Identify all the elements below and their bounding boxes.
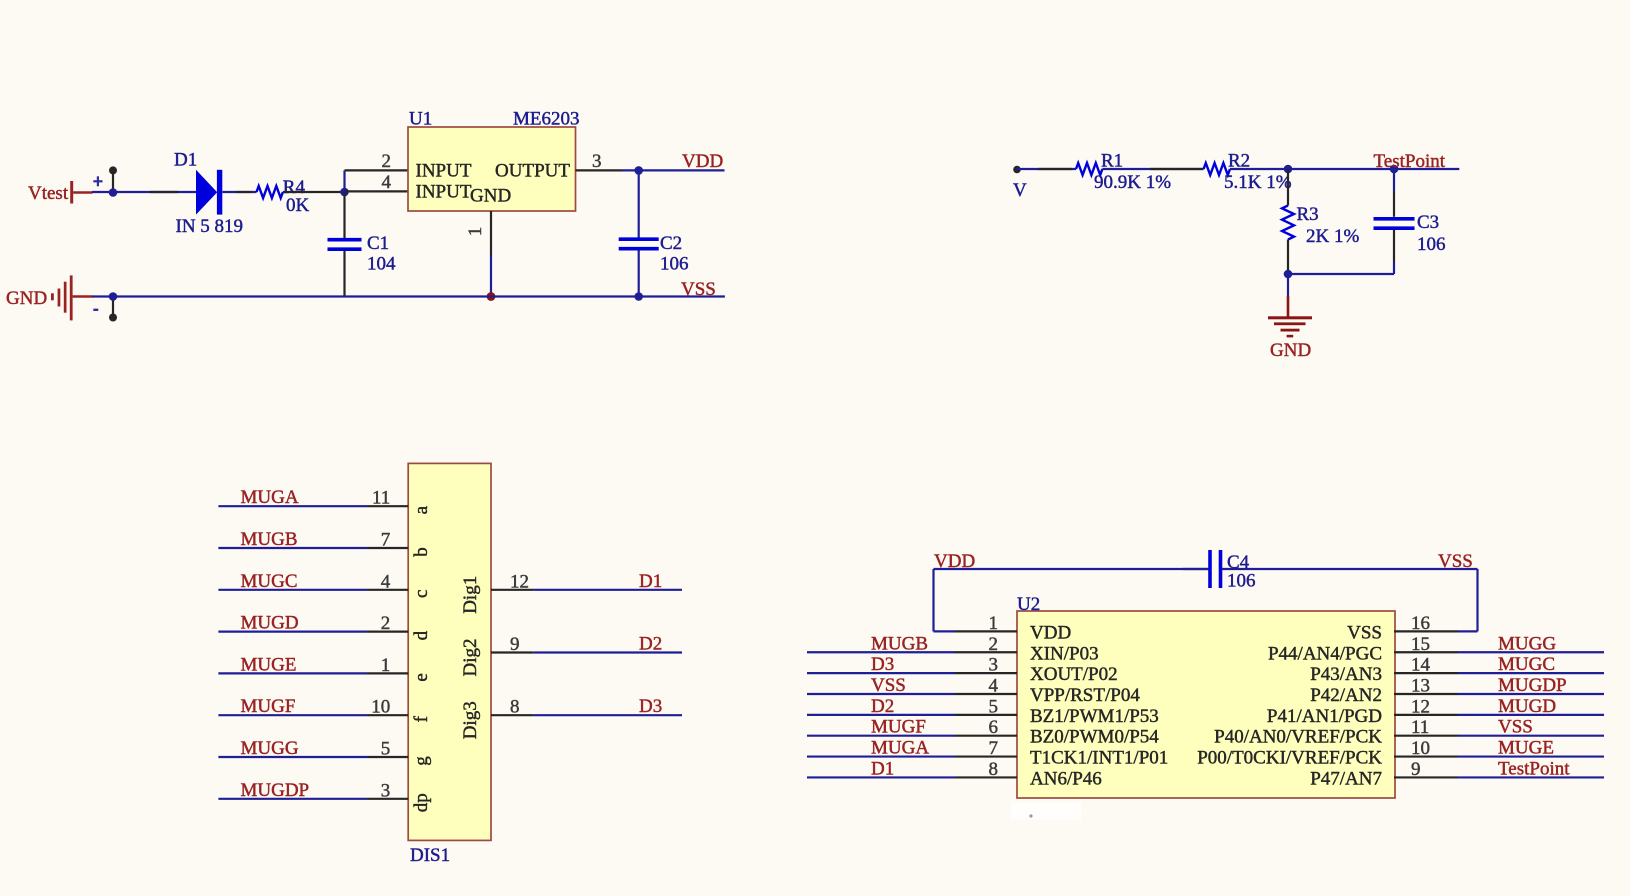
pin 2 of DIS1 — [367, 613, 408, 634]
svg-text:DIS1: DIS1 — [410, 845, 450, 866]
net label MUGA left — [871, 738, 929, 759]
svg-text:12: 12 — [510, 571, 529, 592]
wire net D1 left — [807, 776, 955, 778]
pin 5 of DIS1 — [367, 739, 408, 760]
pin 10 of DIS1 — [367, 697, 408, 718]
value 106 of C3 — [1417, 234, 1446, 255]
wire VDD down to C2 — [638, 170, 640, 238]
wire TestPoint down to C3 — [1393, 169, 1395, 217]
svg-text:2: 2 — [382, 151, 392, 172]
net label MUGD right — [1498, 696, 1556, 717]
svg-text:V: V — [1013, 180, 1027, 201]
svg-text:Dig3: Dig3 — [460, 701, 481, 739]
resistor R1 — [1076, 163, 1102, 175]
pin 16 of U2 — [1394, 613, 1458, 634]
svg-text:MUGC: MUGC — [1498, 654, 1555, 675]
wire net MUGG right — [1458, 651, 1604, 653]
pin 3 of DIS1 — [367, 780, 408, 801]
node at U1 inputs — [340, 188, 349, 197]
pin name P43/AN3 — [1310, 664, 1382, 685]
wire C4 to VSS pin16 — [1222, 569, 1478, 631]
wire R3 to gnd node — [1287, 240, 1289, 275]
pin 11 of DIS1 — [367, 488, 408, 509]
svg-text:D2: D2 — [871, 696, 894, 717]
pin 3 of U2 — [955, 655, 1017, 676]
pin 14 of U2 — [1394, 655, 1458, 676]
pin name b — [411, 547, 432, 557]
pin name f — [411, 715, 432, 722]
pin name T1CK1/INT1/P01 — [1030, 748, 1168, 769]
label U2 — [1017, 594, 1040, 615]
net label VDD — [682, 151, 723, 172]
wire net MUGE — [218, 672, 367, 674]
junction TestPoint — [1390, 165, 1399, 174]
svg-text:AN6/P46: AN6/P46 — [1030, 768, 1102, 789]
svg-text:MUGE: MUGE — [1498, 738, 1554, 759]
wire pin1 to VSS rail — [490, 255, 492, 297]
svg-text:Dig1: Dig1 — [460, 576, 481, 614]
label R1 — [1101, 151, 1123, 172]
wire net MUGDP right — [1458, 693, 1604, 695]
junction R3 gnd — [1284, 270, 1293, 279]
wire pin3 to VDD — [622, 169, 725, 171]
pin name VSS — [1347, 622, 1382, 643]
wire D1 to R4 — [223, 191, 257, 193]
net label TestPoint — [1374, 151, 1446, 172]
svg-text:9: 9 — [1411, 759, 1421, 780]
label C1 — [367, 233, 389, 254]
svg-text:D2: D2 — [639, 634, 662, 655]
svg-text:P47/AN7: P47/AN7 — [1310, 768, 1382, 789]
wire net MUGC right — [1458, 672, 1604, 674]
svg-text:D1: D1 — [174, 150, 197, 171]
svg-text:10: 10 — [1411, 738, 1430, 759]
svg-text:VDD: VDD — [682, 151, 723, 172]
wire net MUGDP — [218, 798, 367, 800]
junction R2 R3 — [1284, 165, 1293, 174]
svg-text:b: b — [411, 547, 432, 557]
pin name XIN/P03 — [1030, 643, 1099, 664]
pin 8 of U2 — [955, 759, 1017, 780]
svg-text:9: 9 — [510, 634, 520, 655]
artifact dot below U2 — [1029, 814, 1032, 817]
svg-text:P44/AN4/PGC: P44/AN4/PGC — [1268, 643, 1382, 664]
svg-text:1: 1 — [989, 613, 999, 634]
svg-text:11: 11 — [1411, 717, 1429, 738]
svg-text:MUGG: MUGG — [241, 738, 299, 759]
capacitor C3 — [1374, 219, 1415, 228]
value IN 5 819 — [176, 216, 244, 237]
svg-text:GND: GND — [1270, 340, 1311, 361]
wire node to GND symbol — [1287, 274, 1289, 317]
svg-text:0K: 0K — [286, 195, 310, 216]
wire C2 to VSS rail — [638, 251, 640, 297]
pin name INPUT bottom — [416, 182, 472, 203]
pin name P47/AN7 — [1310, 768, 1382, 789]
svg-text:D3: D3 — [871, 654, 894, 675]
svg-text:ME6203: ME6203 — [513, 109, 580, 130]
svg-text:106: 106 — [660, 254, 689, 275]
svg-text:D1: D1 — [639, 571, 662, 592]
svg-text:4: 4 — [381, 571, 391, 592]
svg-text:g: g — [411, 756, 432, 766]
wire node up to pin2 row — [343, 170, 345, 192]
svg-text:MUGE: MUGE — [241, 654, 297, 675]
wire dash 3 — [1150, 168, 1203, 170]
wire net MUGB — [218, 547, 367, 549]
net label D1 — [639, 571, 662, 592]
svg-text:VSS: VSS — [871, 675, 906, 696]
resistor R3 — [1282, 206, 1294, 240]
pin name g — [411, 756, 432, 766]
wire net TestPoint right — [1458, 776, 1604, 778]
pin 8 of DIS1 — [491, 697, 533, 718]
pin 9 of U2 — [1394, 759, 1458, 780]
pin name Dig3 — [460, 701, 481, 739]
svg-text:P00/T0CKI/VREF/PCK: P00/T0CKI/VREF/PCK — [1197, 748, 1382, 769]
svg-text:MUGG: MUGG — [1498, 633, 1556, 654]
net label VSS — [681, 279, 716, 300]
svg-text:IN 5 819: IN 5 819 — [176, 216, 244, 237]
svg-text:VSS: VSS — [1498, 717, 1533, 738]
svg-text:MUGDP: MUGDP — [1498, 675, 1567, 696]
svg-text:13: 13 — [1411, 675, 1430, 696]
net label MUGDP — [241, 780, 310, 801]
label U1 — [409, 109, 432, 130]
svg-text:15: 15 — [1411, 634, 1430, 655]
pin 6 of U2 — [955, 717, 1017, 738]
junction at VDD — [634, 166, 643, 175]
net label MUGA — [241, 487, 299, 508]
svg-text:5: 5 — [381, 739, 391, 760]
svg-text:5: 5 — [989, 696, 999, 717]
svg-text:R3: R3 — [1297, 204, 1319, 225]
value 5.1K 1% — [1224, 172, 1292, 193]
net label GND right — [1270, 340, 1311, 361]
pin 5 of U2 — [955, 696, 1017, 717]
svg-text:VPP/RST/P04: VPP/RST/P04 — [1030, 685, 1140, 706]
wire net MUGD right — [1458, 714, 1604, 716]
pin name P42/AN2 — [1310, 685, 1382, 706]
svg-text:MUGB: MUGB — [871, 633, 928, 654]
svg-text:GND: GND — [470, 186, 511, 207]
net label MUGF — [241, 696, 296, 717]
net label MUGG — [241, 738, 299, 759]
svg-text:c: c — [411, 590, 432, 598]
wire net MUGC — [218, 589, 367, 591]
pin name c — [411, 590, 432, 598]
label DIS1 — [410, 845, 450, 866]
value 90.9K 1% — [1094, 172, 1171, 193]
wire net D2 left — [807, 714, 955, 716]
pin 4 of U2 — [955, 675, 1017, 696]
wire net MUGB left — [807, 651, 955, 653]
connector DIS1 body — [408, 463, 491, 840]
net label MUGC — [241, 571, 298, 592]
pin 1 of DIS1 — [367, 655, 408, 676]
plus terminal marker — [93, 176, 102, 186]
wire net D3 left — [807, 672, 955, 674]
svg-text:3: 3 — [381, 780, 391, 801]
pin name BZ1/PWM1/P53 — [1030, 706, 1159, 727]
junction pad VSS — [109, 292, 118, 301]
net label VSS top — [1438, 551, 1473, 572]
wire R2 to node — [1230, 168, 1288, 170]
svg-text:MUGA: MUGA — [241, 487, 299, 508]
svg-text:TestPoint: TestPoint — [1498, 758, 1570, 779]
svg-text:MUGA: MUGA — [871, 738, 929, 759]
pin name P44/AN4/PGC — [1268, 643, 1382, 664]
wire C1 to VSS rail — [343, 251, 345, 297]
junction C2 VSS — [634, 292, 643, 301]
svg-text:VDD: VDD — [934, 551, 975, 572]
svg-text:11: 11 — [372, 488, 390, 509]
net label D2 left — [871, 696, 894, 717]
svg-text:12: 12 — [1411, 696, 1430, 717]
svg-text:4: 4 — [382, 172, 392, 193]
wire dash 2 — [236, 191, 252, 193]
svg-text:f: f — [411, 715, 432, 722]
wire net MUGG — [218, 756, 367, 758]
pin 7 of DIS1 — [367, 530, 408, 551]
svg-text:10: 10 — [371, 697, 390, 718]
svg-text:INPUT: INPUT — [416, 161, 472, 182]
pin name P00/T0CKI/VREF/PCK — [1197, 748, 1382, 769]
svg-text:4: 4 — [989, 675, 999, 696]
artifact patch below U2 — [1011, 803, 1081, 820]
svg-text:8: 8 — [510, 697, 520, 718]
test pad top + — [109, 166, 117, 192]
power port GND left — [6, 275, 93, 320]
svg-text:1: 1 — [465, 227, 486, 237]
svg-text:104: 104 — [367, 254, 396, 275]
pin 2 of U1 — [345, 151, 409, 172]
pin 3 of U1 — [576, 151, 623, 172]
svg-text:VSS: VSS — [681, 279, 716, 300]
value 104 — [367, 254, 396, 275]
pin 12 of DIS1 — [491, 571, 533, 592]
net label D1 left — [871, 758, 894, 779]
svg-text:16: 16 — [1411, 613, 1430, 634]
svg-text:MUGF: MUGF — [241, 696, 296, 717]
svg-text:e: e — [411, 673, 432, 681]
wire Vtest to D1 anode — [92, 191, 196, 193]
svg-text:3: 3 — [989, 655, 999, 676]
svg-text:P41/AN1/PGD: P41/AN1/PGD — [1267, 706, 1382, 727]
pin name BZ0/PWM0/P54 — [1030, 727, 1159, 748]
svg-text:14: 14 — [1411, 655, 1431, 676]
svg-text:C3: C3 — [1417, 212, 1439, 233]
svg-text:OUTPUT: OUTPUT — [495, 161, 570, 182]
svg-text:8: 8 — [989, 759, 999, 780]
resistor R2 — [1204, 163, 1230, 175]
wire VDD to pin1 — [934, 569, 1209, 631]
svg-text:U1: U1 — [409, 109, 432, 130]
wire dash 4 — [1038, 168, 1072, 170]
value 0K — [286, 195, 310, 216]
svg-text:5.1K 1%: 5.1K 1% — [1224, 172, 1292, 193]
svg-text:a: a — [411, 505, 432, 514]
wire C3 down and left — [1288, 230, 1394, 274]
pin name d — [411, 630, 432, 640]
diode D1 — [196, 170, 222, 215]
pin 1 of U2 — [955, 613, 1017, 634]
capacitor C4 — [1210, 550, 1221, 588]
pin 13 of U2 — [1394, 675, 1458, 696]
svg-text:7: 7 — [989, 738, 999, 759]
wire net D1 — [533, 589, 682, 591]
net label D3 left — [871, 654, 894, 675]
VSS rail wire — [92, 295, 725, 297]
svg-text:XIN/P03: XIN/P03 — [1030, 643, 1099, 664]
svg-text:P40/AN0/VREF/PCK: P40/AN0/VREF/PCK — [1214, 727, 1382, 748]
svg-text:2: 2 — [381, 613, 391, 634]
label R3 — [1297, 204, 1319, 225]
svg-text:MUGD: MUGD — [1498, 696, 1556, 717]
wire net VSS right — [1458, 735, 1604, 737]
wire dash 1 — [150, 191, 178, 193]
svg-text:Vtest: Vtest — [28, 183, 69, 204]
svg-text:Dig2: Dig2 — [460, 639, 481, 677]
svg-text:D3: D3 — [639, 696, 662, 717]
svg-text:VSS: VSS — [1347, 622, 1382, 643]
pin 7 of U2 — [955, 738, 1017, 759]
net label MUGB left — [871, 633, 928, 654]
net label MUGC right — [1498, 654, 1555, 675]
net label MUGD — [241, 613, 299, 634]
svg-text:C1: C1 — [367, 233, 389, 254]
svg-text:2K 1%: 2K 1% — [1306, 226, 1359, 247]
pin 15 of U2 — [1394, 634, 1458, 655]
svg-text:D1: D1 — [871, 758, 894, 779]
wire net MUGA left — [807, 755, 955, 757]
net label VSS right — [1498, 717, 1533, 738]
net label MUGF left — [871, 717, 926, 738]
pin name VDD — [1030, 622, 1071, 643]
svg-text:dp: dp — [411, 793, 432, 812]
net label D3 — [639, 696, 662, 717]
resistor R4 — [257, 186, 283, 198]
pin 11 of U2 — [1394, 717, 1458, 738]
svg-text:C2: C2 — [660, 233, 682, 254]
svg-text:106: 106 — [1417, 234, 1446, 255]
svg-text:VSS: VSS — [1438, 551, 1473, 572]
svg-text:MUGDP: MUGDP — [241, 780, 310, 801]
ground GND right — [1268, 316, 1312, 337]
label R2 — [1228, 151, 1250, 172]
wire R4 to node — [283, 191, 345, 193]
wire net MUGE right — [1458, 755, 1604, 757]
svg-text:BZ1/PWM1/P53: BZ1/PWM1/P53 — [1030, 706, 1159, 727]
net label TestPoint right — [1498, 758, 1570, 779]
svg-text:MUGB: MUGB — [241, 529, 298, 550]
capacitor C1 — [328, 240, 362, 250]
wire node to TestPoint — [1288, 168, 1459, 170]
svg-text:106: 106 — [1227, 571, 1256, 592]
pin 4 of DIS1 — [367, 571, 408, 592]
svg-text:90.9K 1%: 90.9K 1% — [1094, 172, 1171, 193]
label D1 — [174, 150, 197, 171]
svg-text:VDD: VDD — [1030, 622, 1071, 643]
net label VDD top — [934, 551, 975, 572]
pin name AN6/P46 — [1030, 768, 1102, 789]
pin 1 of U1 — [465, 211, 491, 255]
pin name P40/AN0/VREF/PCK — [1214, 727, 1382, 748]
wire net D3 — [533, 714, 682, 716]
wire R1 to R2 — [1102, 168, 1203, 170]
net label MUGB — [241, 529, 298, 550]
power port Vtest — [28, 181, 93, 204]
label C4 — [1227, 552, 1250, 573]
svg-text:INPUT: INPUT — [416, 182, 472, 203]
svg-text:MUGD: MUGD — [241, 613, 299, 634]
junction pin1 VSS — [487, 292, 496, 301]
svg-text:d: d — [411, 630, 432, 640]
wire net VSS left — [807, 693, 955, 695]
junction on Vtest wire — [109, 188, 118, 197]
value 106 of C4 — [1227, 571, 1256, 592]
pin name dp — [411, 793, 432, 812]
wire node down to R3 — [1287, 169, 1289, 206]
pin name Dig1 — [460, 576, 481, 614]
svg-text:T1CK1/INT1/P01: T1CK1/INT1/P01 — [1030, 748, 1168, 769]
svg-text:MUGF: MUGF — [871, 717, 926, 738]
node V pad — [1013, 166, 1021, 174]
pin name P41/AN1/PGD — [1267, 706, 1382, 727]
net label MUGDP right — [1498, 675, 1567, 696]
svg-text:7: 7 — [381, 530, 391, 551]
label R4 — [283, 177, 306, 198]
wire net MUGD — [218, 630, 367, 632]
wire net MUGA — [218, 505, 367, 507]
wire net D2 — [533, 651, 682, 653]
label C3 — [1417, 212, 1439, 233]
net label MUGG right — [1498, 633, 1556, 654]
pin 10 of U2 — [1394, 738, 1458, 759]
svg-text:U2: U2 — [1017, 594, 1040, 615]
pin name GND — [470, 186, 511, 207]
wire V to R1 — [1016, 168, 1076, 170]
pin 12 of U2 — [1394, 696, 1458, 717]
capacitor C2 — [619, 239, 659, 249]
svg-text:P42/AN2: P42/AN2 — [1310, 685, 1382, 706]
value 106 of C2 — [660, 254, 689, 275]
pin name OUTPUT — [495, 161, 570, 182]
mcu U2 body — [1017, 611, 1395, 798]
svg-text:3: 3 — [592, 151, 602, 172]
pin name VPP/RST/P04 — [1030, 685, 1140, 706]
svg-text:2: 2 — [989, 634, 999, 655]
value 2K 1% — [1306, 226, 1359, 247]
wire dash before C4 — [1183, 568, 1208, 570]
wire net MUGF — [218, 714, 367, 716]
wire node down to C1 — [343, 192, 345, 238]
pin name a — [411, 505, 432, 514]
net label MUGE right — [1498, 738, 1554, 759]
net label D2 — [639, 634, 662, 655]
pin name e — [411, 673, 432, 681]
svg-text:GND: GND — [6, 288, 47, 309]
wire net MUGF left — [807, 735, 955, 737]
pin name INPUT top — [416, 161, 472, 182]
label ME6203 — [513, 109, 580, 130]
svg-text:6: 6 — [989, 717, 999, 738]
svg-text:MUGC: MUGC — [241, 571, 298, 592]
pin name XOUT/P02 — [1030, 664, 1118, 685]
svg-text:1: 1 — [381, 655, 391, 676]
pin 2 of U2 — [955, 634, 1017, 655]
pin name Dig2 — [460, 639, 481, 677]
